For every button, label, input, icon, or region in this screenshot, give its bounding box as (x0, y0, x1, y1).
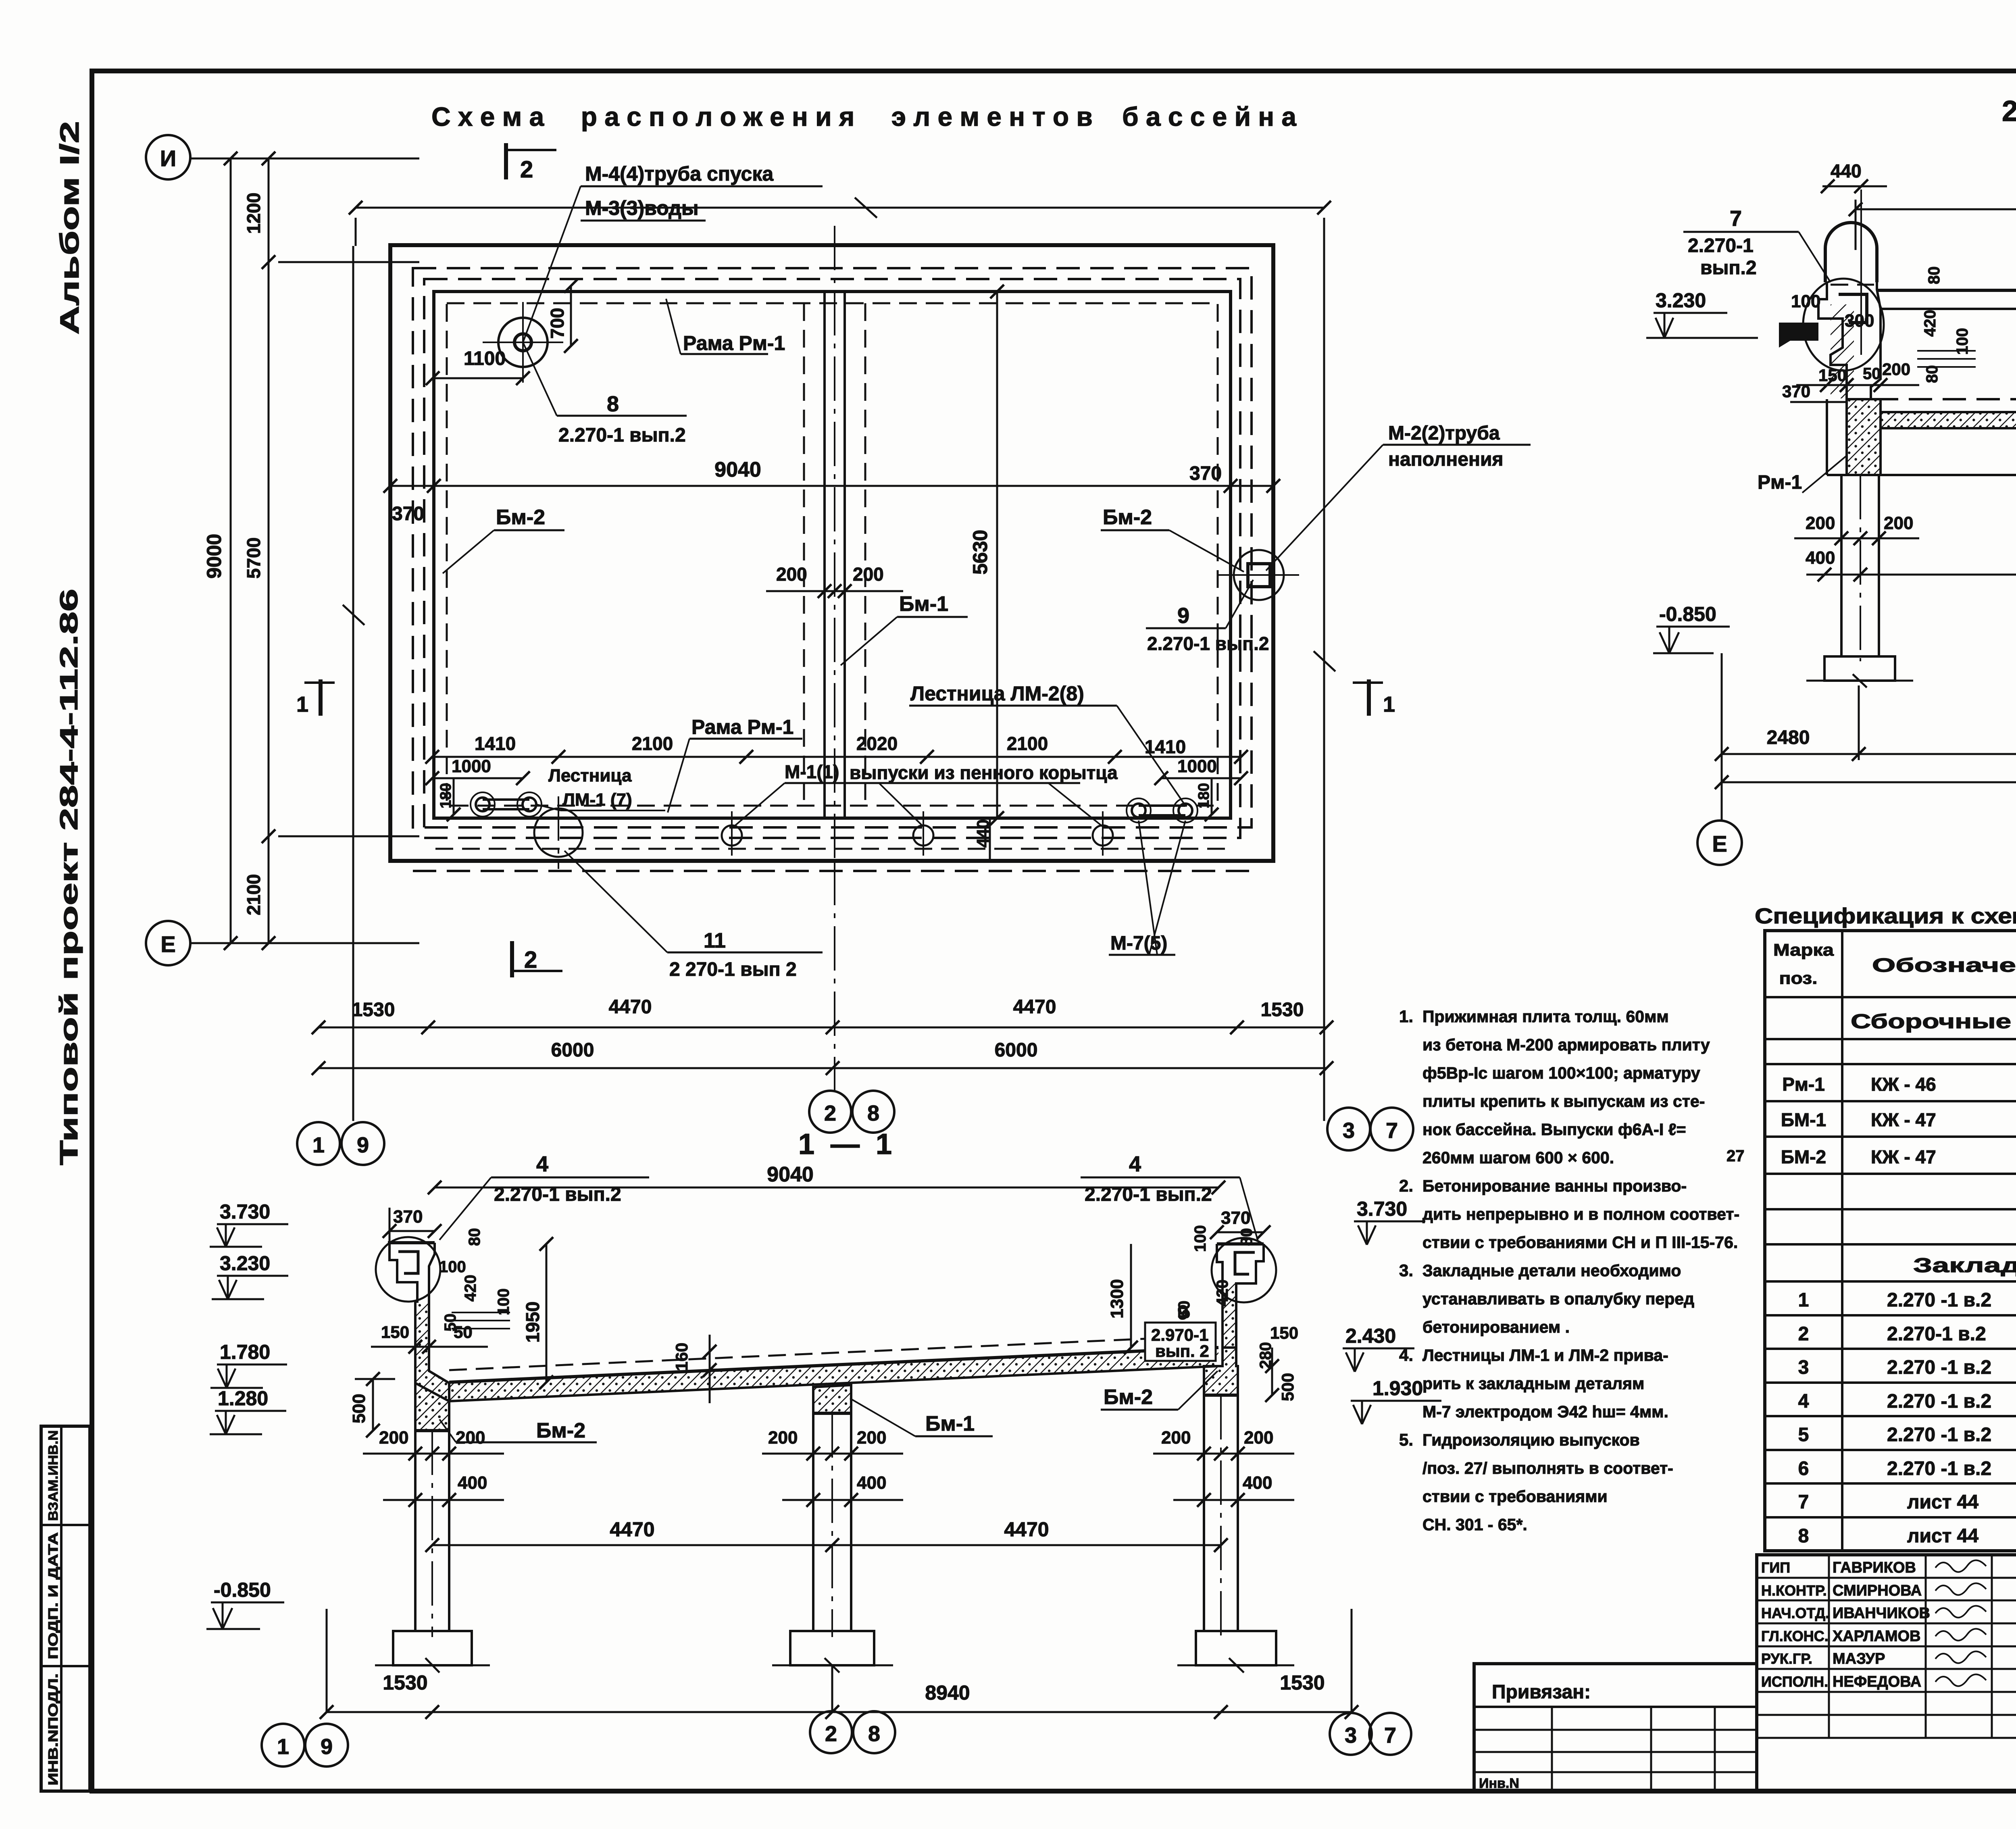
PLAN: beam Bm-1 dashed flank left (803, 303, 805, 806)
svg-text:из бетона М-200 армировать пл: из бетона М-200 армировать плиту (1422, 1035, 1710, 1054)
S11: dim 500 left (372, 1379, 374, 1431)
svg-text:27: 27 (1727, 1147, 1745, 1165)
S22: left rim hatch (1831, 304, 1854, 398)
svg-text:7: 7 (1730, 206, 1742, 231)
S22: dim 400/5140/400 (1806, 574, 2016, 576)
svg-text:200: 200 (776, 564, 807, 585)
S22: dim 440 witness through dome (1860, 190, 1862, 355)
svg-text:9: 9 (321, 1735, 333, 1759)
S11: left column (414, 1431, 417, 1631)
svg-text:М-2(2)труба: М-2(2)труба (1388, 423, 1500, 444)
S22: grid bubble E (1697, 821, 1742, 865)
PLAN: dim 700 vertical (570, 286, 572, 346)
svg-text:260мм шагом 600 × 600.: 260мм шагом 600 × 600. (1422, 1148, 1614, 1167)
svg-text:3: 3 (1345, 1723, 1357, 1748)
svg-text:4470: 4470 (1013, 996, 1056, 1018)
svg-text:5.: 5. (1399, 1430, 1413, 1449)
svg-text:150: 150 (381, 1323, 409, 1342)
svg-text:7: 7 (1384, 1723, 1396, 1748)
svg-text:устанавливать в опалубку пер: устанавливать в опалубку перед (1422, 1289, 1694, 1308)
PLAN: fill pipe circle M-2 (1234, 550, 1284, 600)
PLAN: dashed rect 1 (413, 268, 1252, 827)
svg-text:1530: 1530 (1280, 1671, 1325, 1694)
svg-text:8940: 8940 (925, 1681, 970, 1704)
S11: right detail circle (1212, 1238, 1276, 1302)
S11: left detail circle (376, 1237, 440, 1302)
attachment box (1474, 1664, 1757, 1791)
svg-text:Марка: Марка (1773, 940, 1834, 959)
S11: left wall rim top (388, 1241, 435, 1244)
svg-text:М-7(5): М-7(5) (1110, 933, 1167, 954)
svg-text:Прижимная плита толщ. 60мм: Прижимная плита толщ. 60мм (1422, 1007, 1669, 1026)
PLAN: leader from drain circle (523, 186, 581, 342)
svg-text:6000: 6000 (995, 1039, 1038, 1061)
PLAN: dim 370-9040-370 (390, 485, 1273, 487)
svg-text:2: 2 (524, 947, 537, 973)
svg-text:1: 1 (1383, 692, 1395, 717)
S22: left detail circle (1803, 279, 1884, 371)
PLAN: left vertical dim 9000 (230, 158, 232, 943)
svg-text:7: 7 (1386, 1119, 1398, 1143)
PLAN: innermost dashed rect (447, 303, 1218, 806)
svg-text:ВЗАМ.ИНВ.N: ВЗАМ.ИНВ.N (46, 1430, 60, 1521)
svg-text:ГЛ.КОНС.: ГЛ.КОНС. (1761, 1628, 1829, 1644)
svg-text:2: 2 (520, 156, 533, 183)
PLAN: dim 5630 vertical (996, 292, 998, 818)
svg-text:80: 80 (1923, 365, 1941, 383)
PLAN: section mark 2 top (504, 143, 508, 179)
S22: dim 440 (1822, 185, 1887, 187)
svg-text:9: 9 (1177, 604, 1189, 628)
left margin stamp cells (41, 1426, 90, 1791)
svg-text:плиты крепить к выпускам из: плиты крепить к выпускам из сте- (1422, 1092, 1705, 1110)
S22: bottom chain 9000 (1722, 781, 2016, 783)
PLAN: grid bubbles 1 9 (297, 1122, 340, 1165)
svg-text:2 270-1 вып 2: 2 270-1 вып 2 (669, 959, 797, 980)
svg-text:Е: Е (160, 931, 175, 957)
svg-text:И: И (160, 146, 176, 171)
svg-text:4: 4 (1798, 1391, 1809, 1412)
svg-text:2.430: 2.430 (1345, 1325, 1396, 1347)
svg-text:160: 160 (672, 1343, 691, 1371)
svg-text:ИНВ.NПОДЛ.: ИНВ.NПОДЛ. (46, 1673, 60, 1785)
svg-text:50: 50 (454, 1323, 473, 1342)
svg-text:3.730: 3.730 (1357, 1198, 1407, 1220)
svg-text:Бм-2: Бм-2 (496, 506, 545, 529)
svg-text:Рм-1: Рм-1 (1782, 1074, 1825, 1095)
S11: grid bubbles 1 9 (262, 1724, 304, 1767)
svg-text:Сборочные единицы бассейна: Сборочные единицы бассейна (1851, 1010, 2016, 1033)
S22: beam bottom line (1827, 474, 2016, 476)
PLAN: section mark 1 right (1353, 681, 1383, 684)
S11: dim 370 left (389, 1230, 435, 1232)
PLAN: grid bubbles 2 8 (809, 1091, 851, 1133)
S22: slab second line (1881, 308, 2016, 310)
S22: left rim inner bracket (1839, 294, 1867, 323)
svg-text:150: 150 (1270, 1323, 1298, 1342)
svg-text:200: 200 (379, 1428, 408, 1448)
svg-text:1300: 1300 (1107, 1279, 1127, 1319)
svg-text:370: 370 (1189, 463, 1222, 484)
svg-text:Бм-1: Бм-1 (925, 1412, 975, 1435)
svg-text:50: 50 (1863, 365, 1881, 383)
svg-text:РУК.ГР.: РУК.ГР. (1761, 1650, 1812, 1667)
svg-text:2.270-1 вып.2: 2.270-1 вып.2 (558, 425, 686, 446)
svg-text:2480: 2480 (1767, 727, 1810, 748)
svg-text:КЖ - 47: КЖ - 47 (1871, 1109, 1936, 1130)
svg-text:Альбом I/2: Альбом I/2 (54, 121, 84, 335)
svg-text:Инв.N: Инв.N (1479, 1776, 1519, 1791)
S11: dim 4470 x2 (432, 1544, 1221, 1546)
svg-text:100: 100 (1191, 1225, 1209, 1252)
PLAN: left vertical dims 1200/5700/2100 (268, 158, 270, 943)
PLAN: center witness to bubbles (834, 861, 835, 1091)
PLAN: section mark 1 left (304, 681, 335, 684)
svg-text:БМ-1: БМ-1 (1781, 1109, 1826, 1130)
S22: left wall hatched (1847, 399, 1881, 475)
spec table grid (1765, 931, 2016, 1551)
svg-text:наполнения: наполнения (1388, 449, 1504, 470)
S11: dim 1950 (546, 1244, 548, 1382)
svg-text:420: 420 (462, 1275, 479, 1302)
S22: slab top line (1877, 289, 2016, 292)
S22: dim 5630 (1856, 208, 2016, 210)
svg-text:Гидроизоляцию выпусков: Гидроизоляцию выпусков (1422, 1431, 1640, 1449)
svg-text:2.270 -1 в.2: 2.270 -1 в.2 (1887, 1458, 1991, 1479)
S11: right wall hatch + beam (1223, 1283, 1236, 1348)
svg-text:М-4(4)труба спуска: М-4(4)труба спуска (585, 162, 774, 185)
svg-text:180: 180 (1195, 783, 1212, 808)
svg-text:-0.850: -0.850 (1659, 603, 1716, 625)
svg-text:2.270-1 вып.2: 2.270-1 вып.2 (1085, 1184, 1212, 1205)
svg-text:лист 44: лист 44 (1907, 1525, 1979, 1547)
svg-text:Бм-1: Бм-1 (899, 592, 948, 616)
svg-text:2.270 -1 в.2: 2.270 -1 в.2 (1887, 1357, 1991, 1378)
PLAN: dim 180 left (453, 778, 455, 815)
PLAN: pool outer wall rectangle (390, 245, 1273, 861)
svg-text:2.270 -1 в.2: 2.270 -1 в.2 (1887, 1391, 1991, 1412)
svg-text:9040: 9040 (767, 1163, 814, 1186)
svg-text:ствии с требованиями: ствии с требованиями (1422, 1487, 1608, 1506)
PLAN: dim 1000 right (1161, 777, 1241, 779)
svg-text:1000: 1000 (1177, 756, 1217, 776)
svg-text:МАЗУР: МАЗУР (1833, 1650, 1885, 1667)
svg-text:1.280: 1.280 (218, 1387, 268, 1410)
svg-text:200: 200 (1882, 360, 1910, 379)
svg-text:9000: 9000 (203, 534, 225, 579)
PLAN: right witness line down (1323, 246, 1325, 1121)
S22: floor slab hatched band (1881, 412, 2016, 428)
svg-text:400: 400 (1806, 548, 1835, 568)
svg-text:8: 8 (607, 392, 619, 416)
svg-text:бетонированием .: бетонированием . (1422, 1318, 1570, 1336)
svg-text:Бм-2: Бм-2 (1103, 506, 1152, 529)
svg-text:Лестница: Лестница (548, 766, 632, 785)
svg-text:1200: 1200 (243, 193, 264, 234)
svg-text:200: 200 (456, 1428, 485, 1448)
S11: dim 400 middle column (782, 1499, 903, 1501)
S11: middle column (812, 1413, 814, 1631)
svg-text:420: 420 (1214, 1279, 1231, 1306)
svg-text:150: 150 (1818, 366, 1847, 385)
svg-text:1950: 1950 (522, 1302, 543, 1343)
S11: slab top line (449, 1348, 1218, 1382)
svg-text:3.: 3. (1399, 1261, 1413, 1280)
PLAN: horizontal stubs at dim ends (278, 261, 419, 263)
PLAN: beam Bm-1 right edge (843, 292, 846, 818)
S11: left rim embed bracket (398, 1252, 418, 1273)
svg-text:вып.2: вып.2 (1700, 257, 1757, 279)
S11: dim 370 right (1217, 1231, 1264, 1233)
svg-text:2.270 -1 в.2: 2.270 -1 в.2 (1887, 1289, 1991, 1311)
PLAN: interior bottom chain 1410/2100/2020/2100/1410 (432, 756, 1241, 758)
svg-text:9: 9 (357, 1133, 369, 1157)
svg-text:Привязан:: Привязан: (1492, 1681, 1591, 1703)
svg-text:/поз. 27/ выполнять в соотве: /поз. 27/ выполнять в соответ- (1422, 1459, 1673, 1477)
svg-text:50: 50 (1175, 1301, 1193, 1319)
PLAN: beam Bm-1 dashed flank right (864, 303, 866, 806)
svg-text:200: 200 (768, 1428, 798, 1448)
PLAN: grid bubbles 3 7 (1327, 1108, 1370, 1150)
svg-text:100: 100 (495, 1288, 512, 1315)
svg-text:440: 440 (1831, 160, 1862, 181)
svg-text:4: 4 (536, 1152, 548, 1176)
svg-text:4470: 4470 (1004, 1518, 1049, 1541)
svg-text:5630: 5630 (969, 530, 991, 575)
svg-text:300: 300 (1845, 311, 1874, 331)
svg-text:2100: 2100 (1007, 733, 1048, 754)
svg-text:рить к закладным деталям: рить к закладным деталям (1422, 1374, 1644, 1393)
PLAN: dim 180 right (1211, 778, 1213, 815)
PLAN: outlet 11 circle (534, 808, 583, 857)
S11: middle beam Bm-1 (813, 1385, 851, 1413)
S11: footings (393, 1631, 472, 1665)
svg-text:Закладные элементы: Закладные элементы (1913, 1254, 2016, 1277)
PLAN: dim 1000 left (432, 777, 523, 779)
svg-text:8: 8 (868, 1722, 880, 1746)
svg-text:5700: 5700 (243, 537, 264, 579)
svg-text:200: 200 (1884, 513, 1913, 533)
S11: left wall hatch (415, 1302, 449, 1431)
grid line E with bubble (190, 942, 419, 944)
S11: right wall rim top (1217, 1242, 1264, 1246)
svg-text:Е: Е (1712, 831, 1727, 856)
svg-text:7: 7 (1798, 1492, 1809, 1513)
PLAN: pool inner wall rectangle (434, 292, 1231, 818)
PLAN: outlets from foam trough (722, 825, 742, 846)
svg-text:500: 500 (349, 1394, 369, 1423)
svg-text:1.780: 1.780 (220, 1341, 270, 1363)
svg-text:4470: 4470 (609, 996, 652, 1018)
svg-text:3: 3 (1343, 1119, 1355, 1143)
S11: witness lines bottom (326, 1609, 328, 1712)
svg-text:80: 80 (1238, 1228, 1256, 1246)
svg-text:6: 6 (1798, 1458, 1809, 1479)
PLAN: beam centerline (834, 226, 835, 861)
svg-text:ствии с требованиями СН и П II: ствии с требованиями СН и П III-15-76. (1422, 1233, 1738, 1252)
svg-text:Н.КОНТР.: Н.КОНТР. (1761, 1582, 1827, 1599)
svg-text:Рама Рм-1: Рама Рм-1 (691, 716, 793, 738)
svg-text:Бетонирование ванны произво-: Бетонирование ванны произво- (1422, 1177, 1687, 1195)
svg-text:С х е м а р а с п о л о ж: С х е м а р а с п о л о ж е н и я э л е … (431, 102, 1297, 131)
svg-text:1.: 1. (1399, 1007, 1413, 1026)
svg-text:дить непрерывно и в полном с: дить непрерывно и в полном соответ- (1422, 1205, 1739, 1223)
svg-text:ИСПОЛН.: ИСПОЛН. (1761, 1673, 1828, 1690)
S11: dashed waterproofing line (449, 1335, 1218, 1370)
svg-text:НАЧ.ОТД.: НАЧ.ОТД. (1761, 1605, 1829, 1621)
svg-text:2.270-1 вып.2: 2.270-1 вып.2 (494, 1184, 621, 1205)
svg-text:1.930: 1.930 (1372, 1377, 1423, 1400)
svg-text:2100: 2100 (632, 733, 673, 754)
svg-text:М-1(1): М-1(1) (785, 761, 839, 782)
S11: slab bottom line (449, 1366, 1218, 1401)
svg-text:1410: 1410 (475, 733, 516, 754)
svg-text:2100: 2100 (243, 874, 264, 915)
svg-text:2: 2 (825, 1722, 837, 1746)
svg-text:выпуски из пенного корытца: выпуски из пенного корытца (850, 762, 1118, 783)
svg-text:370: 370 (393, 1207, 423, 1227)
svg-text:Лестница ЛМ-2(8): Лестница ЛМ-2(8) (910, 682, 1084, 705)
svg-text:80: 80 (466, 1228, 483, 1246)
svg-text:200: 200 (1244, 1428, 1273, 1448)
svg-text:М-7 электродом Э42 hш= 4мм.: М-7 электродом Э42 hш= 4мм. (1422, 1402, 1668, 1421)
svg-text:лист 44: лист 44 (1907, 1492, 1979, 1513)
svg-text:Типовой проект 284-4-112.86: Типовой проект 284-4-112.86 (55, 589, 83, 1165)
svg-text:М-3(3)воды: М-3(3)воды (585, 197, 699, 219)
PLAN: beam Bm-1 left edge (823, 292, 826, 818)
svg-text:Рм-1: Рм-1 (1758, 472, 1802, 493)
S11: dims 200/200 right column (1153, 1453, 1294, 1455)
svg-text:200: 200 (1806, 513, 1835, 533)
svg-text:Бм-2: Бм-2 (536, 1419, 585, 1442)
PLAN: dim 1100 (433, 377, 523, 379)
S22: left footing (1824, 656, 1895, 681)
S11: slab hatch band (449, 1348, 1218, 1401)
svg-text:440: 440 (973, 819, 992, 848)
svg-text:2020: 2020 (856, 733, 898, 754)
PLAN: ladder LM-2 (1132, 804, 1145, 817)
PLAN: section mark 2 bottom (510, 941, 514, 977)
svg-text:КЖ - 47: КЖ - 47 (1871, 1146, 1936, 1167)
svg-text:1530: 1530 (383, 1671, 427, 1694)
svg-text:400: 400 (857, 1473, 886, 1493)
PLAN: trough dashed row (435, 848, 1229, 850)
S11: left beam block Bm-2 (415, 1383, 449, 1431)
svg-text:ГАВРИКОВ: ГАВРИКОВ (1833, 1559, 1916, 1576)
PLAN: bottom chain row 1530/4470/4470/1530 (319, 1027, 1327, 1029)
svg-text:1530: 1530 (352, 999, 395, 1021)
svg-text:6000: 6000 (551, 1039, 594, 1061)
svg-text:2: 2 (1798, 1323, 1809, 1345)
svg-text:1530: 1530 (1261, 999, 1304, 1021)
svg-text:нок бассейна. Выпуски ф6А-I ℓ: нок бассейна. Выпуски ф6А-I ℓ= (1422, 1120, 1686, 1139)
svg-text:8: 8 (867, 1101, 879, 1125)
svg-text:11: 11 (704, 929, 726, 952)
svg-text:1: 1 (1798, 1289, 1809, 1311)
S22: bottom chain 2480/5540/1280 (1722, 753, 2016, 755)
title block signature table (1757, 1555, 2016, 1791)
S22: witness lines (1721, 653, 1723, 821)
svg-text:Бм-2: Бм-2 (1104, 1385, 1153, 1409)
PLAN: dashed line below bottom wall (413, 870, 1252, 872)
svg-text:8: 8 (1798, 1525, 1809, 1547)
svg-text:400: 400 (458, 1473, 487, 1493)
svg-text:ХАРЛАМОВ: ХАРЛАМОВ (1833, 1628, 1921, 1645)
svg-text:Рама Рм-1: Рама Рм-1 (683, 332, 785, 354)
svg-text:ПОДП. И ДАТА: ПОДП. И ДАТА (46, 1532, 60, 1659)
svg-text:2.270-1 в.2: 2.270-1 в.2 (1887, 1323, 1986, 1345)
PLAN: drain pipe circle M-4 (498, 318, 548, 367)
svg-text:370: 370 (1221, 1208, 1250, 1228)
S11: grid bubbles 3 7 (1330, 1713, 1372, 1755)
svg-text:-0.850: -0.850 (214, 1579, 271, 1601)
svg-text:вып. 2: вып. 2 (1155, 1342, 1209, 1360)
S22: dome inner dashes (1831, 284, 1874, 286)
svg-text:80: 80 (1925, 267, 1943, 285)
svg-text:100: 100 (1791, 292, 1820, 311)
svg-text:БМ-2: БМ-2 (1781, 1146, 1826, 1167)
S11: right column (1203, 1395, 1205, 1631)
svg-text:100: 100 (439, 1258, 466, 1276)
S11: dim 400 left column (383, 1499, 504, 1501)
svg-text:СМИРНОВА: СМИРНОВА (1833, 1582, 1922, 1599)
svg-text:ГИП: ГИП (1761, 1559, 1790, 1576)
svg-text:1100: 1100 (464, 348, 506, 369)
PLAN: fill pipe embed mark (1248, 564, 1270, 587)
svg-text:3.230: 3.230 (220, 1252, 270, 1275)
S11: left rim profile (389, 1243, 417, 1431)
S22: dome arc left (1825, 223, 1877, 282)
svg-text:500: 500 (1278, 1373, 1297, 1401)
svg-text:3.230: 3.230 (1656, 289, 1706, 312)
svg-text:поз.: поз. (1779, 969, 1818, 987)
PLAN: dim 200/200 at beam (766, 590, 903, 592)
S11: label 9 / 2.970-1 vyp.2 (1145, 1323, 1216, 1361)
svg-text:3: 3 (1798, 1357, 1809, 1378)
svg-text:4470: 4470 (610, 1518, 654, 1541)
svg-text:ИВАНЧИКОВ: ИВАНЧИКОВ (1833, 1605, 1930, 1622)
svg-text:400: 400 (1243, 1473, 1272, 1493)
svg-text:2.270-1: 2.270-1 (1688, 235, 1754, 256)
svg-text:4: 4 (1129, 1152, 1141, 1176)
S22: dims 200/200 left (1794, 537, 1919, 540)
PLAN: bottom chain row 6000/6000 (319, 1067, 1327, 1069)
svg-text:СН. 301 - 65*.: СН. 301 - 65*. (1422, 1515, 1527, 1534)
svg-text:180: 180 (437, 783, 454, 808)
S11: grid bubbles 2 8 (831, 1665, 833, 1711)
PLAN: dim 440 vertical in trough (989, 818, 991, 861)
svg-text:200: 200 (853, 564, 884, 585)
S22: left column (1840, 475, 1843, 656)
svg-text:3.730: 3.730 (220, 1200, 270, 1223)
S22: left rim profile (1818, 282, 1847, 399)
S11: bottom chain 1530/8940/1530 (327, 1711, 1352, 1713)
S11: dims 200/200 left column (363, 1453, 504, 1455)
svg-text:2.270-1 вып.2: 2.270-1 вып.2 (1147, 633, 1269, 654)
svg-text:370: 370 (392, 503, 424, 525)
svg-text:1: 1 (277, 1735, 289, 1759)
svg-text:Закладные детали необходимо: Закладные детали необходимо (1422, 1261, 1681, 1280)
svg-text:1000: 1000 (452, 756, 491, 776)
S11: dim 400 right column (1173, 1499, 1294, 1501)
svg-text:2.270 -1 в.2: 2.270 -1 в.2 (1887, 1424, 1991, 1446)
grid line I with bubble (190, 158, 419, 160)
PLAN: top witness lines (355, 218, 357, 246)
svg-text:200: 200 (857, 1428, 886, 1448)
svg-text:420: 420 (1921, 310, 1939, 337)
S11: right rim embed bracket (1235, 1252, 1255, 1274)
svg-text:Спецификация к схеме располо: Спецификация к схеме расположения элемен… (1755, 904, 2016, 928)
